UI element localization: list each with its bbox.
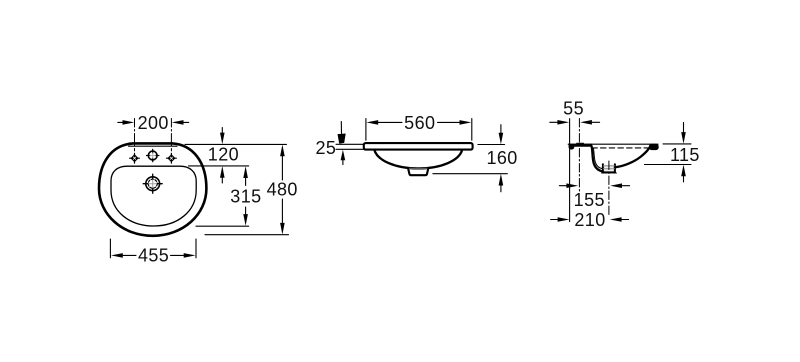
115 extension lines: [644, 144, 691, 165]
centerline drain (side): [608, 161, 610, 217]
tap hole left (diamond): [130, 153, 140, 163]
tap hole right (diamond): [167, 153, 177, 163]
455 extension lines: [110, 239, 196, 258]
svg-text:455: 455: [138, 246, 169, 266]
svg-text:315: 315: [230, 187, 261, 207]
dimension 120 arrows: [221, 128, 223, 184]
dimension 560 arrows: [378, 121, 459, 123]
extension line inner bowl bottom (315): [196, 225, 249, 227]
svg-text:25: 25: [315, 138, 336, 158]
dimension 455 arrows: [123, 254, 184, 256]
25 extension lines: [336, 144, 364, 149]
160 extension lines: [433, 145, 507, 174]
centerline tap hole right: [170, 119, 172, 151]
centerline tap hole (side): [578, 119, 580, 192]
svg-text:200: 200: [138, 113, 169, 133]
svg-text:55: 55: [563, 98, 584, 118]
dimension 25 bottom arrow: [342, 160, 344, 165]
svg-text:160: 160: [486, 148, 517, 168]
bowl bottom thin line across trap mouth: [408, 167, 428, 169]
centerline tap hole left: [134, 119, 136, 151]
basin outer outline (plan): [99, 143, 206, 235]
drain centerline horizontal tick: [602, 172, 617, 174]
bowl outline (front): [374, 150, 462, 169]
tap hole hump tick: [577, 142, 584, 144]
drain outlet symbol (plan): [143, 174, 162, 193]
dimension 480 arrows: [281, 156, 283, 223]
dimension 25 top arrow: [340, 122, 342, 134]
solid extension line front edge: [569, 119, 571, 222]
svg-text:120: 120: [208, 145, 239, 165]
dimension 160 arrows: [500, 125, 502, 192]
basin inner bowl outline (plan): [111, 166, 196, 226]
extension line outer bottom (480): [205, 234, 289, 236]
bowl front wall (side): [592, 146, 604, 171]
top surface line (side): [568, 143, 658, 145]
drain trap (side): [604, 165, 615, 172]
svg-text:560: 560: [404, 113, 435, 133]
dimension 315 arrows: [245, 178, 247, 215]
svg-text:210: 210: [574, 210, 605, 230]
dimension 115 arrows: [683, 123, 685, 182]
dimension 200 arrows: [118, 121, 189, 123]
tap hole centre (circle): [147, 149, 159, 161]
dimension 55 arrows: [550, 121, 600, 123]
extension line inner bowl top (120/315): [189, 165, 249, 167]
bowl front wall inner line: [593, 148, 602, 169]
back rim cross-section (side, filled): [649, 144, 659, 150]
drain trap (front): [408, 169, 428, 175]
front rim cross-section (side, filled): [569, 144, 593, 150]
bowl bottom curve (side): [615, 146, 650, 167]
svg-text:480: 480: [267, 180, 298, 200]
svg-text:115: 115: [670, 145, 700, 165]
dimension 155 arrows: [559, 185, 629, 187]
extension line top edge (120/480): [185, 143, 287, 145]
560 extension lines: [366, 119, 472, 141]
dimension 210 arrows: [551, 219, 629, 221]
rim cross-section bar (front): [364, 143, 473, 150]
hidden rim edge (dashed): [592, 147, 650, 149]
svg-text:155: 155: [574, 190, 605, 210]
rim inner edge line (plan top): [129, 145, 178, 147]
